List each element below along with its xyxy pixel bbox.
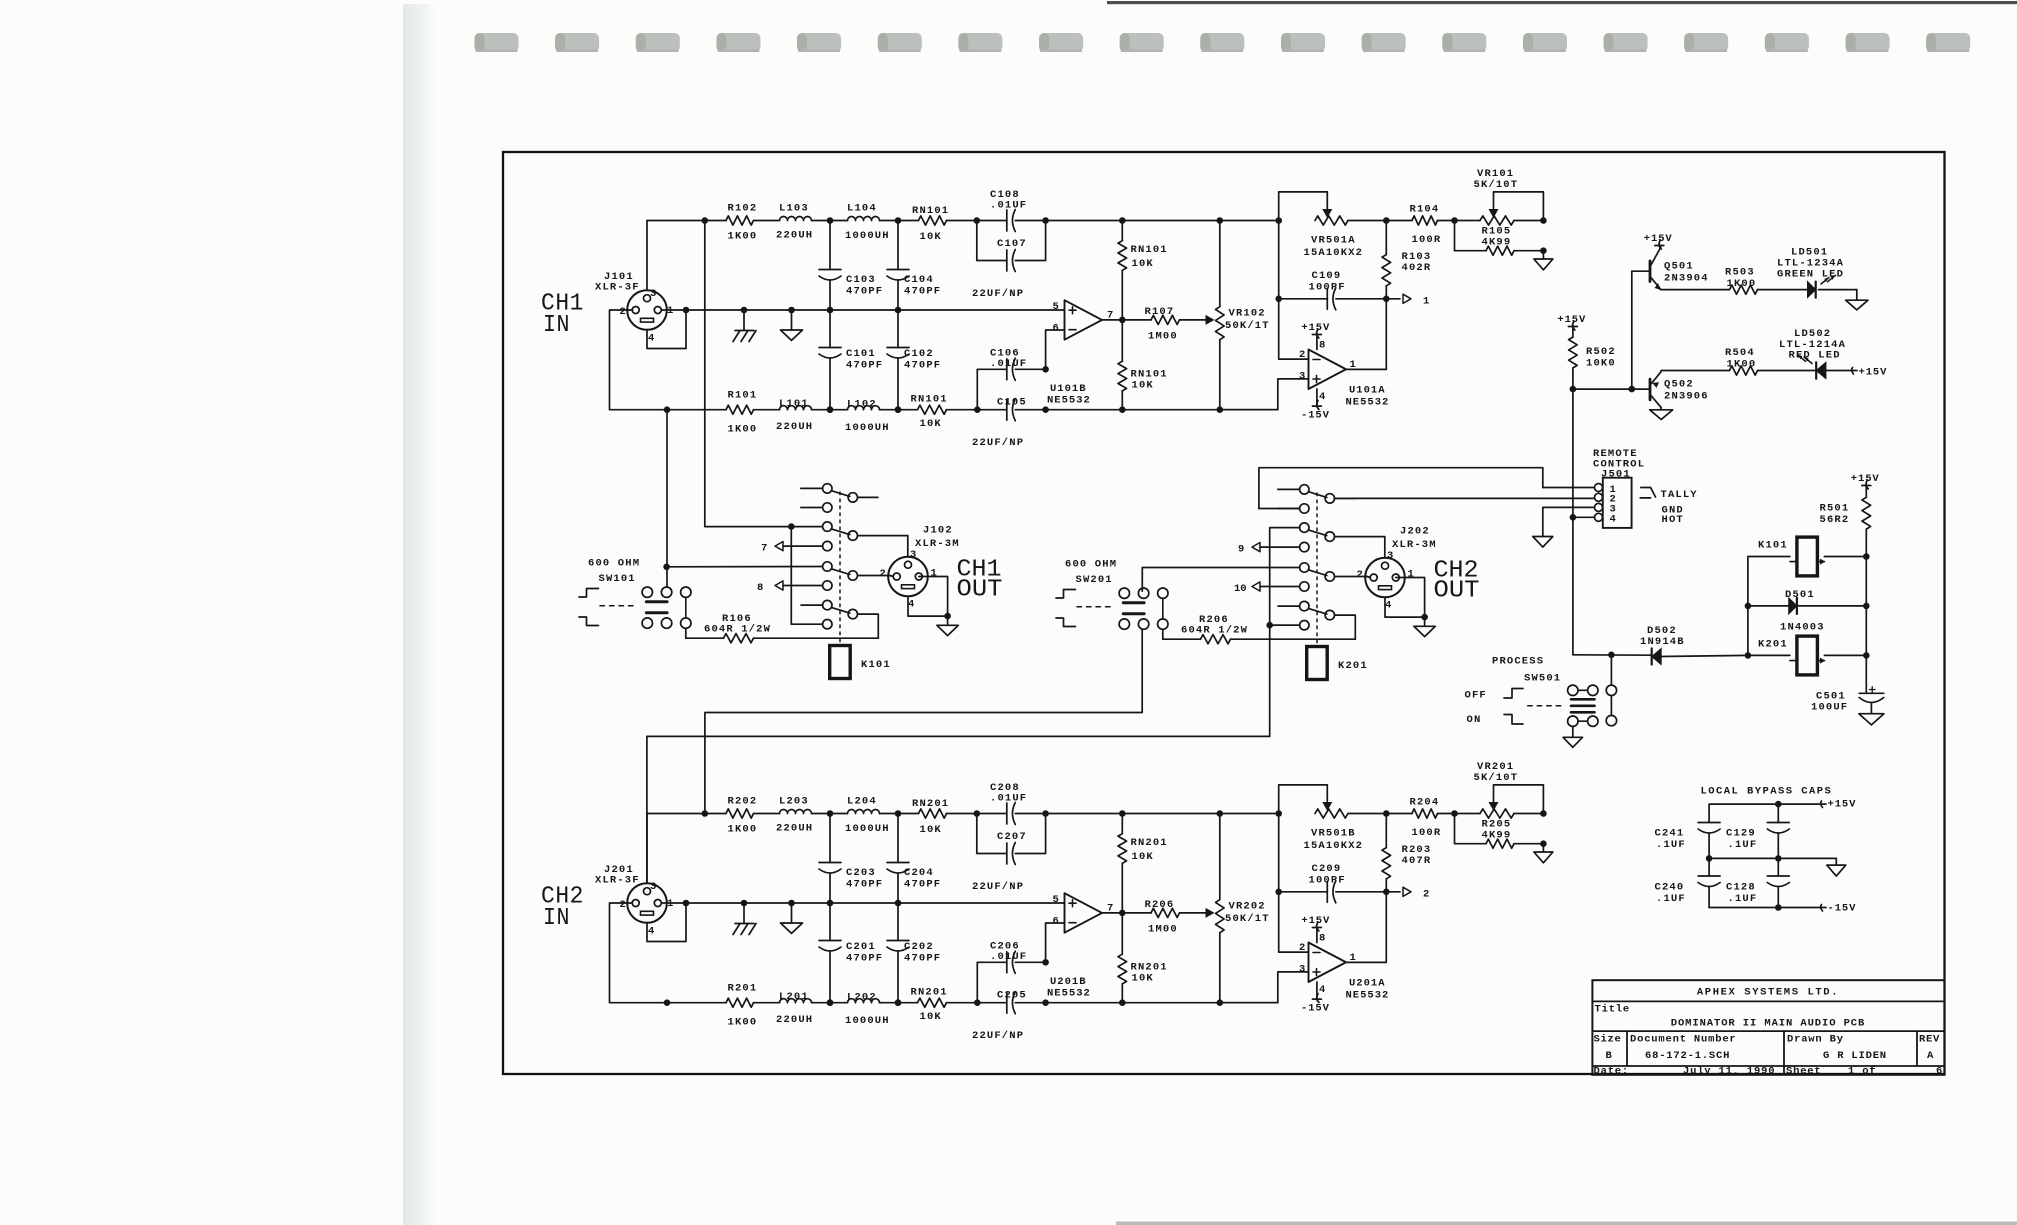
svg-text:R101: R101	[728, 390, 758, 402]
svg-text:600 OHM: 600 OHM	[1065, 559, 1117, 571]
wire	[880, 406, 918, 413]
svg-text:HOT: HOT	[1662, 514, 1684, 526]
ground below LD501	[1846, 290, 1868, 310]
wire SW201 mid column to row E	[1142, 568, 1299, 592]
resistor R101 1K00	[726, 390, 757, 436]
resistor R504 1K00	[1661, 347, 1758, 375]
svg-text:Document Number: Document Number	[1630, 1033, 1737, 1045]
svg-text:+15V: +15V	[1828, 799, 1857, 811]
svg-text:470PF: 470PF	[904, 879, 941, 891]
svg-text:DOMINATOR II MAIN AUDIO PCB: DOMINATOR II MAIN AUDIO PCB	[1671, 1017, 1865, 1029]
potentiometer VR101 5K/10T	[1455, 168, 1547, 225]
LED LD501 LTL-1234A GREEN	[1758, 247, 1857, 298]
wire J501 pin1 stub	[1543, 487, 1595, 489]
wire op-amp B output	[1102, 910, 1151, 917]
op-amp U101A NE5532	[1299, 349, 1389, 409]
capacitor C241 .1UF	[1655, 801, 1782, 859]
svg-text:4K99: 4K99	[1482, 237, 1512, 249]
power +15V at R502	[1557, 314, 1586, 330]
svg-text:VR102: VR102	[1229, 308, 1266, 320]
svg-text:RED LED: RED LED	[1789, 350, 1841, 362]
power -15V at U201A pin 4	[1301, 982, 1330, 1015]
capacitor C103 470PF	[819, 221, 883, 314]
relay K201 contact row A	[1278, 485, 1355, 503]
capacitor C206 .01UF	[990, 941, 1027, 974]
wire op-amp A output loop	[1346, 892, 1386, 963]
svg-text:1: 1	[667, 898, 673, 910]
capacitor C128 .1UF	[1726, 858, 1789, 907]
svg-text:R206: R206	[1145, 899, 1175, 911]
svg-text:XLR-3F: XLR-3F	[595, 875, 640, 887]
power +15V local bypass	[1778, 799, 1856, 811]
svg-text:-15V: -15V	[1301, 1003, 1330, 1015]
relay coil K201 (drive)	[1758, 636, 1825, 675]
svg-text:4: 4	[648, 926, 654, 938]
capacitor C501 100UF	[1811, 687, 1884, 725]
svg-text:7: 7	[761, 543, 767, 555]
wire - input of op-amp B	[1046, 330, 1065, 369]
svg-text:REV: REV	[1919, 1033, 1940, 1045]
svg-text:XLR-3M: XLR-3M	[915, 538, 960, 550]
svg-text:4: 4	[648, 333, 654, 345]
svg-text:6: 6	[1053, 916, 1059, 928]
svg-text:J102: J102	[923, 525, 953, 537]
wire pin3 feed	[1383, 537, 1385, 558]
relay K201 contact row E	[1300, 563, 1367, 581]
wire	[1015, 999, 1049, 1006]
resistor R103 402R	[1382, 221, 1431, 299]
wire op-amp A output loop	[1346, 299, 1386, 370]
switch SW201 600 OHM	[1065, 559, 1168, 630]
power -15V local bypass	[1709, 903, 1856, 915]
connector J101 XLR-3F (CH1 IN)	[595, 271, 673, 345]
svg-text:C104: C104	[904, 274, 934, 286]
svg-text:+15V: +15V	[1557, 314, 1586, 326]
switch SW501 position steps	[1504, 689, 1562, 725]
wire C-pair right bracket	[1015, 366, 1049, 373]
svg-text:-15V: -15V	[1301, 410, 1330, 422]
svg-text:OUT: OUT	[1434, 578, 1480, 605]
svg-text:L201: L201	[779, 991, 809, 1003]
wire	[812, 810, 848, 817]
svg-text:1000UH: 1000UH	[845, 422, 890, 434]
wire C-pair left bracket	[977, 369, 1007, 409]
resistor R105 4K99	[1455, 221, 1547, 256]
inductor L202 1000UH	[845, 992, 890, 1028]
power +15V at U101A pin 8	[1301, 322, 1330, 352]
ground below Q502	[1650, 407, 1673, 419]
svg-text:4K99: 4K99	[1482, 830, 1512, 842]
resistor R202 1K00	[726, 795, 757, 835]
node row H junction CH2	[1266, 622, 1299, 629]
relay coil K201	[1307, 647, 1368, 680]
wire XLR pin3 to top rail	[646, 814, 648, 884]
wire C-pair left bracket	[977, 221, 1007, 261]
wire mid rail (pin1 line)	[661, 309, 1064, 311]
wire	[754, 220, 780, 222]
inductor L204 1000UH	[845, 796, 890, 835]
resistor R106 604R 1/2W	[686, 613, 879, 643]
svg-text:Size: Size	[1594, 1033, 1622, 1045]
label ON	[1467, 714, 1482, 726]
wire	[812, 999, 848, 1006]
svg-text:C207: C207	[997, 831, 1027, 843]
svg-text:+15V: +15V	[1301, 915, 1330, 927]
connector J202 XLR-3M (CH2 OUT)	[1357, 526, 1437, 612]
svg-text:C129: C129	[1726, 828, 1756, 840]
capacitor C207 22UF/NP	[972, 831, 1027, 893]
svg-text:470PF: 470PF	[846, 360, 883, 372]
transistor Q502 2N3906	[1650, 372, 1709, 408]
wire	[947, 999, 1007, 1006]
wire row C to row H riser	[790, 527, 792, 625]
wire K101 left	[1745, 557, 1790, 656]
capacitor C106 .01UF	[990, 348, 1027, 381]
wire	[667, 409, 726, 411]
svg-text:.01UF: .01UF	[990, 358, 1027, 370]
wire J501 pin3 to ground	[1533, 507, 1595, 547]
relay K201 contact row G	[1278, 601, 1355, 639]
wire	[705, 813, 726, 815]
LED LD502 LTL-1214A RED	[1758, 328, 1853, 379]
svg-text:.01UF: .01UF	[990, 793, 1027, 805]
wire mid rail to ground	[1706, 855, 1846, 876]
resistor R201 1K00	[726, 983, 757, 1029]
svg-text:APHEX SYSTEMS LTD.: APHEX SYSTEMS LTD.	[1697, 987, 1839, 999]
connector J102 XLR-3M (CH1 OUT)	[880, 525, 960, 611]
svg-text:1M00: 1M00	[1148, 924, 1178, 936]
svg-text:C205: C205	[997, 990, 1027, 1002]
resistor network RN101 10K (upper column)	[1118, 217, 1168, 320]
svg-text:220UH: 220UH	[776, 230, 813, 242]
wire	[1015, 406, 1049, 413]
bottom-right page edge gray line	[1116, 1222, 2017, 1225]
wire C-pair right bracket	[1015, 814, 1045, 854]
svg-text:3: 3	[1299, 964, 1305, 976]
power +15V right of LD502	[1852, 367, 1888, 379]
svg-text:470PF: 470PF	[846, 879, 883, 891]
svg-text:470PF: 470PF	[846, 953, 883, 965]
svg-text:L104: L104	[847, 203, 877, 215]
wire bottom-rail riser to row E	[663, 410, 822, 587]
svg-text:2: 2	[620, 306, 626, 318]
wire	[947, 406, 1007, 413]
svg-text:NE5532: NE5532	[1047, 988, 1091, 1000]
svg-text:C209: C209	[1312, 863, 1342, 875]
left page-edge shadow band	[403, 4, 436, 1225]
svg-text:10K: 10K	[1132, 851, 1154, 863]
relay K201 contact row H	[1268, 621, 1309, 630]
svg-text:1: 1	[1423, 296, 1429, 308]
svg-text:XLR-3M: XLR-3M	[1392, 539, 1437, 551]
svg-text:Title: Title	[1595, 1004, 1631, 1016]
wire	[1386, 220, 1412, 222]
svg-text:.1UF: .1UF	[1656, 839, 1686, 851]
svg-text:3: 3	[650, 881, 656, 893]
svg-text:1000UH: 1000UH	[845, 230, 890, 242]
svg-text:100PF: 100PF	[1309, 875, 1346, 887]
svg-text:8: 8	[757, 582, 763, 594]
wire	[880, 810, 919, 817]
inductor L201 220UH	[776, 991, 813, 1026]
svg-text:56R2: 56R2	[1820, 514, 1850, 526]
op-amp U201A NE5532	[1299, 942, 1389, 1002]
svg-text:K201: K201	[1758, 639, 1788, 651]
wire	[947, 810, 1007, 817]
svg-text:5K/10T: 5K/10T	[1474, 772, 1519, 784]
svg-text:3: 3	[1387, 550, 1393, 562]
wire	[1348, 217, 1390, 224]
svg-text:8: 8	[1319, 933, 1325, 945]
svg-text:July 11, 1990: July 11, 1990	[1683, 1066, 1775, 1078]
CH2 OUT channel label	[1434, 557, 1480, 604]
wire	[1386, 813, 1412, 815]
capacitor C204 470PF	[887, 814, 941, 907]
svg-text:2: 2	[1357, 569, 1363, 581]
svg-text:1K00: 1K00	[728, 424, 758, 436]
wire pin1/pin4 to ground	[908, 577, 958, 636]
wire base junction	[1570, 386, 1650, 393]
svg-text:100UF: 100UF	[1811, 702, 1848, 714]
wire	[1348, 810, 1390, 817]
wire top-rail riser to row C	[705, 221, 823, 530]
power +15V at U201A pin 8	[1301, 915, 1330, 945]
resistor R107 1M00	[1145, 306, 1180, 343]
wire K101 right	[1824, 553, 1869, 560]
svg-text:22UF/NP: 22UF/NP	[972, 1030, 1024, 1042]
svg-text:RN101: RN101	[912, 205, 949, 217]
svg-text:Sheet: Sheet	[1786, 1066, 1822, 1078]
wire K201 right	[1824, 652, 1869, 659]
transistor Q501 2N3904	[1632, 246, 1709, 291]
svg-text:1000UH: 1000UH	[845, 1015, 890, 1027]
wire C-pair right bracket	[1015, 221, 1045, 261]
svg-text:470PF: 470PF	[846, 286, 883, 298]
svg-text:1K00: 1K00	[728, 824, 758, 836]
resistor network RN201 10K (top rail)	[912, 798, 949, 836]
resistor R102 1K00	[726, 202, 757, 242]
svg-text:402R: 402R	[1402, 262, 1432, 274]
title block	[1592, 980, 1944, 1077]
potentiometer VR202 50K/1T	[1180, 810, 1270, 1006]
svg-text:U201A: U201A	[1349, 978, 1386, 990]
wire pin1/pin4 to ground	[1385, 578, 1435, 637]
svg-text:RN201: RN201	[912, 798, 949, 810]
svg-text:R504: R504	[1725, 347, 1755, 359]
node 7	[761, 541, 832, 554]
label OFF	[1465, 690, 1487, 702]
wire VR501 wiper column	[1278, 814, 1280, 892]
wire XLR pin2 loop to bottom rail	[610, 310, 671, 413]
svg-text:C204: C204	[904, 867, 934, 879]
svg-text:GREEN LED: GREEN LED	[1777, 269, 1844, 281]
inductor L103 220UH	[776, 202, 813, 241]
relay K201 contact row B	[1278, 504, 1309, 513]
svg-text:NE5532: NE5532	[1346, 397, 1390, 409]
relay K101 actuator dashed line	[839, 492, 841, 645]
svg-text:10K: 10K	[1132, 380, 1154, 392]
svg-text:C105: C105	[997, 397, 1027, 409]
diode D502 1N914B	[1573, 625, 1748, 665]
svg-text:U201B: U201B	[1050, 976, 1087, 988]
svg-text:1K00: 1K00	[728, 1017, 758, 1029]
wire top rail segment	[647, 810, 708, 817]
potentiometer VR102 50K/1T	[1180, 217, 1270, 413]
CH2 IN channel label	[541, 884, 584, 933]
svg-text:K201: K201	[1338, 660, 1368, 672]
svg-text:R502: R502	[1586, 346, 1616, 358]
wire	[754, 409, 780, 411]
wire XLR pin4 to pin1 node	[647, 900, 689, 942]
wire XLR pin4 to pin1 node	[647, 307, 689, 349]
svg-text:4: 4	[1385, 600, 1391, 612]
wire + input of op-amp A	[1220, 379, 1309, 410]
relay K101 contact row H	[791, 620, 832, 629]
svg-text:1: 1	[1408, 569, 1414, 581]
svg-text:C241: C241	[1655, 828, 1685, 840]
svg-text:VR202: VR202	[1229, 901, 1266, 913]
svg-text:L101: L101	[779, 398, 809, 410]
capacitor C240 .1UF	[1655, 858, 1721, 907]
capacitor C209 100PF	[1275, 863, 1389, 903]
capacitor C205 22UF/NP	[972, 990, 1027, 1043]
wire + input of op-amp A	[1220, 972, 1309, 1003]
inductor L102 1000UH	[845, 399, 890, 435]
svg-text:50K/1T: 50K/1T	[1225, 913, 1270, 925]
wire J201 pin3 long feed	[647, 528, 1300, 883]
relay K101 contact row B	[801, 503, 832, 512]
node output 2	[1386, 887, 1429, 900]
svg-text:U101A: U101A	[1349, 385, 1386, 397]
wire XLR pin3 to top rail	[646, 221, 648, 291]
wire K201 left	[1745, 652, 1790, 659]
svg-text:LOCAL BYPASS CAPS: LOCAL BYPASS CAPS	[1701, 785, 1833, 797]
wire - input of op-amp A	[1279, 892, 1309, 952]
svg-text:1: 1	[667, 305, 673, 317]
svg-text:R503: R503	[1725, 267, 1755, 279]
svg-text:C203: C203	[846, 867, 876, 879]
inductor L104 1000UH	[845, 203, 890, 242]
svg-text:+15V: +15V	[1859, 367, 1888, 379]
svg-text:ON: ON	[1467, 714, 1482, 726]
svg-text:22UF/NP: 22UF/NP	[972, 288, 1024, 300]
wire	[880, 217, 919, 224]
top-right page edge dark line	[1107, 1, 2017, 4]
svg-text:C202: C202	[904, 941, 934, 953]
label LOCAL BYPASS CAPS	[1701, 785, 1833, 797]
wire	[754, 1002, 780, 1004]
relay coil K101	[830, 646, 891, 679]
svg-text:2N3906: 2N3906	[1664, 391, 1709, 403]
wire J501 pin1 long wire	[1259, 468, 1543, 509]
wire VR501 wiper column	[1278, 221, 1280, 299]
svg-text:407R: 407R	[1402, 855, 1432, 867]
ground below trim pot	[1534, 251, 1553, 270]
wire	[880, 999, 918, 1006]
svg-text:10K: 10K	[1132, 973, 1154, 985]
svg-text:+15V: +15V	[1301, 322, 1330, 334]
svg-text:L204: L204	[847, 796, 877, 808]
resistor network RN201 10K (lower column)	[1118, 913, 1168, 1006]
capacitor C101 470PF	[819, 310, 883, 413]
capacitor C201 470PF	[819, 903, 883, 1006]
resistor network RN201 10K (upper column)	[1118, 810, 1168, 913]
svg-text:C102: C102	[904, 348, 934, 360]
svg-text:3: 3	[1299, 371, 1305, 383]
relay K101 contact row E	[823, 562, 890, 580]
resistor network RN101 10K (bottom rail)	[911, 394, 948, 431]
signal ground on mid rail	[781, 307, 803, 341]
svg-text:SW201: SW201	[1076, 574, 1113, 586]
svg-text:C240: C240	[1655, 882, 1685, 894]
svg-text:10K0: 10K0	[1586, 358, 1616, 370]
schematic border frame	[503, 152, 1945, 1074]
svg-text:OFF: OFF	[1465, 690, 1487, 702]
svg-text:NE5532: NE5532	[1346, 990, 1390, 1002]
svg-text:L102: L102	[847, 399, 877, 411]
svg-text:RN101: RN101	[911, 394, 948, 406]
svg-text:D501: D501	[1785, 589, 1815, 601]
TALLY indicator	[1640, 488, 1698, 502]
relay K101 contact row A	[801, 484, 878, 502]
wire row A to J501 pin2	[1335, 497, 1595, 499]
wire	[1015, 810, 1049, 817]
svg-text:PROCESS: PROCESS	[1492, 656, 1544, 668]
svg-text:C201: C201	[846, 941, 876, 953]
wire pin2 feed	[890, 576, 893, 577]
svg-text:Q501: Q501	[1664, 261, 1694, 273]
svg-text:50K/1T: 50K/1T	[1225, 320, 1270, 332]
svg-text:SW101: SW101	[599, 573, 636, 585]
power +15V at R501	[1851, 473, 1880, 489]
resistor R501 56R2	[1820, 486, 1871, 557]
svg-text:K101: K101	[861, 659, 891, 671]
svg-text:9: 9	[1238, 544, 1244, 556]
svg-text:XLR-3F: XLR-3F	[595, 282, 640, 294]
svg-text:SW501: SW501	[1524, 673, 1561, 685]
svg-text:R501: R501	[1820, 503, 1850, 515]
svg-text:220UH: 220UH	[776, 823, 813, 835]
svg-text:470PF: 470PF	[904, 286, 941, 298]
svg-text:L103: L103	[779, 202, 809, 214]
resistor R206 1M00	[1145, 899, 1180, 936]
svg-text:.01UF: .01UF	[990, 951, 1027, 963]
wire	[705, 220, 726, 222]
svg-text:1 of: 1 of	[1848, 1066, 1876, 1078]
svg-text:RN201: RN201	[911, 987, 948, 999]
svg-text:5: 5	[1053, 301, 1059, 313]
svg-text:.1UF: .1UF	[1728, 839, 1758, 851]
svg-text:R104: R104	[1410, 204, 1440, 216]
node 10	[1234, 582, 1309, 595]
svg-text:1K00: 1K00	[1727, 359, 1757, 371]
svg-text:U101B: U101B	[1050, 383, 1087, 395]
svg-text:R204: R204	[1410, 797, 1440, 809]
chassis ground on mid rail	[733, 307, 756, 342]
svg-text:10K: 10K	[920, 231, 942, 243]
op-amp U201B NE5532	[1047, 893, 1113, 999]
label HOT	[1662, 514, 1684, 526]
wire bottom rail right segment	[1046, 1002, 1278, 1004]
node 8	[757, 581, 832, 594]
svg-text:C109: C109	[1312, 270, 1342, 282]
wire	[812, 406, 848, 413]
ground below SW501	[1563, 726, 1583, 747]
node 9	[1238, 542, 1309, 555]
wire pin3 feed	[906, 536, 908, 557]
wire op-amp B output	[1102, 317, 1151, 324]
svg-text:600 OHM: 600 OHM	[588, 558, 640, 570]
